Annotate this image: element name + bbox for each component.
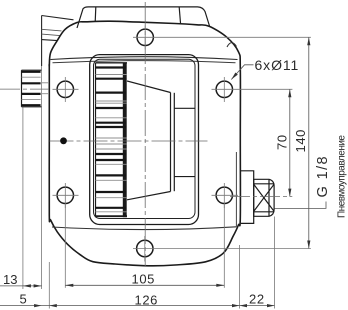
window inner rim	[94, 59, 196, 218]
bolt hole top	[137, 26, 153, 50]
bearing cap	[174, 108, 195, 176]
hex fitting boss	[241, 171, 254, 224]
extension lines	[23, 37, 311, 308]
svg-text:Пневмоуправление: Пневмоуправление	[337, 135, 348, 218]
svg-text:13: 13	[3, 272, 17, 287]
spline axis centerline	[0, 88, 49, 90]
gear teeth thick bands	[96, 68, 127, 208]
svg-text:G 1/8: G 1/8	[315, 155, 331, 197]
dim line 13	[0, 272, 42, 288]
hex plug G1/8	[254, 179, 274, 216]
bolt hole lower-left	[53, 183, 79, 208]
rear housing hump top	[77, 7, 210, 28]
rear housing step lines	[42, 29, 62, 35]
gear hub taper	[127, 81, 174, 200]
gear body	[96, 63, 128, 217]
window outer rim	[90, 55, 199, 225]
bolt hole upper-right	[216, 77, 232, 102]
svg-text:70: 70	[275, 134, 290, 150]
leader 6xO11	[231, 57, 299, 80]
dim line 105	[65, 272, 224, 287]
rear housing left edge	[42, 16, 74, 67]
svg-text:126: 126	[135, 293, 159, 308]
gear axis centerline + dot	[50, 140, 208, 142]
flange outer contour	[49, 21, 240, 266]
svg-text:5: 5	[20, 292, 27, 307]
dim line 70	[275, 89, 292, 196]
mounting pad top edge (double arc)	[51, 57, 238, 60]
splined input shaft	[22, 70, 42, 107]
leader G 1/8	[275, 155, 332, 208]
bolt hole lower-right	[212, 183, 239, 208]
mounting pad right edge	[235, 152, 237, 227]
spline teeth bands	[22, 72, 41, 105]
hex axis centerline	[230, 196, 292, 198]
casting bump on top-right corner	[227, 43, 237, 47]
svg-text:22: 22	[249, 291, 265, 306]
bolt hole bottom	[137, 236, 153, 262]
svg-text:105: 105	[132, 272, 156, 287]
dim line 5 / 126 / 22	[0, 291, 275, 307]
svg-text:6xØ11: 6xØ11	[255, 57, 300, 73]
mounting pad bottom edge	[52, 227, 236, 230]
gear teeth thin lines	[96, 75, 127, 212]
vertical centerline	[144, 2, 146, 266]
bolt hole upper-left	[53, 77, 79, 102]
spline thin lines	[22, 77, 50, 99]
svg-text:140: 140	[293, 129, 308, 153]
dim line 140	[293, 37, 310, 248]
